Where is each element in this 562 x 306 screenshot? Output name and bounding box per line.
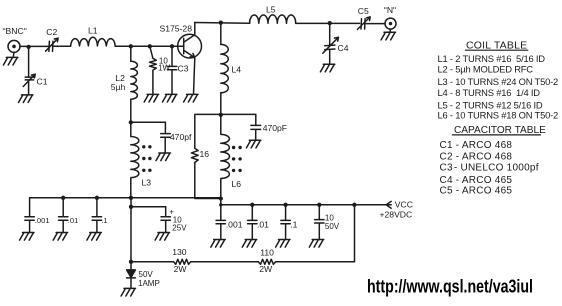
svg-text:.01: .01 [68,216,79,225]
ground (C7) [246,140,260,148]
junction (.01 tap right) [250,203,254,207]
svg-text:50V: 50V [325,222,340,231]
junction dot (right rail C12) [219,203,222,206]
core dots (L6) [232,146,242,172]
capacitor C2 (variable) [46,38,59,51]
node J junction [129,260,133,264]
node junction (C3 tap) [170,44,174,48]
svg-text:C2: C2 [46,27,57,37]
wire right rail (VCC) [221,204,355,206]
resistor R1 10 1W [150,46,157,94]
node C junction [129,120,133,124]
junction (electrolytic tap) [129,205,133,209]
svg-text:470pf: 470pf [170,132,192,142]
resistor R3 130 2W [174,259,191,264]
wire R4 to node I [276,205,355,262]
svg-text:.1: .1 [101,216,107,225]
capacitor C10 .1 [96,198,98,217]
wire BNC to ground [12,52,15,57]
ground (C9) [53,233,67,241]
ground (C13) [242,240,256,248]
diode D1 zener 50V 1AMP [127,262,136,289]
wire node H to electrolytic branch [131,198,166,207]
inductor L2 [131,61,138,99]
svg-text:L4 - 8 TURNS #16 1/4 ID: L4 - 8 TURNS #16 1/4 ID [438,87,541,98]
capacitor C1 (variable) [23,74,35,95]
core dots (L3) [142,145,151,172]
wire node C to C6 [131,121,166,123]
wire R3 to R4 [191,261,258,263]
svg-text:L6 - 10 TURNS #18 ON T50-2: L6 - 10 TURNS #18 ON T50-2 [438,110,559,121]
inductor L1 [71,37,116,46]
wire node B down to L2 [130,46,132,61]
VCC arrowhead [386,201,391,208]
transformer winding L3 [131,122,139,197]
svg-text:C3 - UNELCO 1000pf: C3 - UNELCO 1000pf [440,163,539,174]
wire node J to R3 [131,261,174,263]
junction (.1 tap right) [283,203,287,207]
svg-text:L5: L5 [266,5,276,15]
svg-text:L6: L6 [232,179,242,189]
svg-text:C5: C5 [358,6,369,16]
wire C2 to L1 [54,45,71,47]
svg-text:1W: 1W [158,63,170,72]
wire collector to L5 [195,22,250,25]
svg-text:L4: L4 [232,65,242,75]
svg-text:.001: .001 [35,216,50,225]
resistor R2 16 [191,148,198,162]
capacitor C12 .001 [220,205,222,221]
svg-text:C2 - ARCO 468: C2 - ARCO 468 [440,151,513,162]
wire node E to R2 branch [195,114,221,148]
transistor Q1 S175-28 [178,23,202,95]
ground (C10) [87,233,101,241]
ground (D1) [121,288,135,296]
wire node H down to node J [130,207,132,262]
wire left rail [30,197,221,199]
wire C5 to N connector [366,23,385,25]
svg-text:16: 16 [200,149,210,159]
capacitor C13 .01 [251,205,253,221]
wire node D down to L4 [220,23,222,45]
ground (C15) [309,240,323,248]
svg-text:110: 110 [260,247,274,257]
svg-text:VCC: VCC [395,200,413,210]
ground (R1) [144,94,158,102]
svg-text:L2 - 5µh MOLDED RFC: L2 - 5µh MOLDED RFC [438,64,534,75]
svg-text:2W: 2W [259,264,273,274]
svg-text:470pF: 470pF [263,123,287,133]
wire L2 to node C [130,99,132,122]
capacitor C7 470pf [251,114,261,140]
wire R2 to node G [195,162,221,198]
node D junction (L4 tap) [219,21,223,25]
svg-text:.01: .01 [257,219,269,229]
svg-text:C4: C4 [338,43,349,53]
svg-text:C4 - ARCO 465: C4 - ARCO 465 [440,175,513,186]
svg-text:25V: 25V [172,223,187,232]
wire L4 to node E [220,93,222,115]
capacitor C11 10 25V electrolytic [165,207,167,217]
svg-text:130: 130 [172,247,187,257]
ground (C12) [211,240,225,248]
ground (C14) [276,240,290,248]
svg-text:http://www.qsl.net/va3iul: http://www.qsl.net/va3iul [367,276,533,297]
capacitor C9 .01 [62,198,64,217]
ground (BNC) [3,57,17,65]
svg-text:2W: 2W [174,264,188,274]
ground (C3) [163,94,177,102]
svg-text:1AMP: 1AMP [138,279,160,288]
node E junction [219,113,223,117]
inductor L4 [221,44,228,92]
capacitor C6 470pf [161,122,171,153]
junction (.1 tap left) [95,196,99,200]
ground (N) [381,32,395,40]
wire L1 to base node [115,45,184,47]
node A junction [26,45,30,49]
ground (C8) [20,233,34,241]
ground (C6) [156,153,170,161]
svg-text:L3: L3 [142,178,152,188]
capacitor C15 10 50V [318,205,320,220]
node I junction (dropper tap) [352,203,356,207]
ground (C11) [155,233,169,241]
node junction (R1 tap) [148,44,152,48]
node F junction (C4 tap) [328,21,332,25]
connector J1 "BNC" [8,40,20,52]
svg-text:L1 - 2 TURNS #16 5/16 ID: L1 - 2 TURNS #16 5/16 ID [438,53,546,64]
capacitor C4 (variable) [323,37,339,64]
wire node E to C7 [221,113,256,115]
ground (emitter) [184,94,198,102]
capacitor table title underline [452,134,541,136]
svg-text:C1: C1 [37,77,48,87]
wire left rail to right rail step [220,198,222,205]
wire VCC stub [354,204,391,206]
svg-text:50V: 50V [139,270,154,279]
capacitor C14 .1 [285,205,287,221]
svg-text:C3: C3 [178,64,189,74]
wire BNC to node A [20,45,48,47]
resistor R4 110 2W [258,259,275,264]
node G junction [219,196,223,200]
connector J2 "N" [385,18,396,29]
svg-text:.1: .1 [290,219,297,229]
svg-text:C5 - ARCO 465: C5 - ARCO 465 [440,186,513,197]
node H junction [129,196,133,200]
ground (C1) [19,95,33,103]
wire L5 to node F [296,22,360,24]
capacitor C3 [167,46,176,94]
transformer winding L6 [221,115,230,199]
svg-text:C1 - ARCO 468: C1 - ARCO 468 [440,140,513,151]
coil table title underline [465,49,528,51]
svg-text:S175-28: S175-28 [160,24,193,34]
node B junction (L2 tap) [129,44,133,48]
junction (.01 tap left) [61,196,65,200]
wire N to ground [389,29,392,32]
svg-text:L1: L1 [88,26,98,36]
wire node F down to C4 [329,23,331,45]
inductor L5 [250,15,296,23]
capacitor C8 .001 [29,198,31,217]
svg-text:ʺBNCʺ: ʺBNCʺ [3,26,27,36]
junction (10-50V tap) [317,203,321,207]
svg-text:+28VDC: +28VDC [380,210,413,220]
svg-text:.001: .001 [226,219,243,229]
ground (C4) [320,64,334,72]
capacitor C5 (variable) [357,17,370,30]
wire node A down to C1 [28,47,30,77]
svg-text:L3 - 10 TURNS #24 ON T50-2: L3 - 10 TURNS #24 ON T50-2 [438,76,559,87]
svg-text:5µh: 5µh [111,82,126,92]
svg-text:ʺNʺ: ʺNʺ [384,5,396,15]
